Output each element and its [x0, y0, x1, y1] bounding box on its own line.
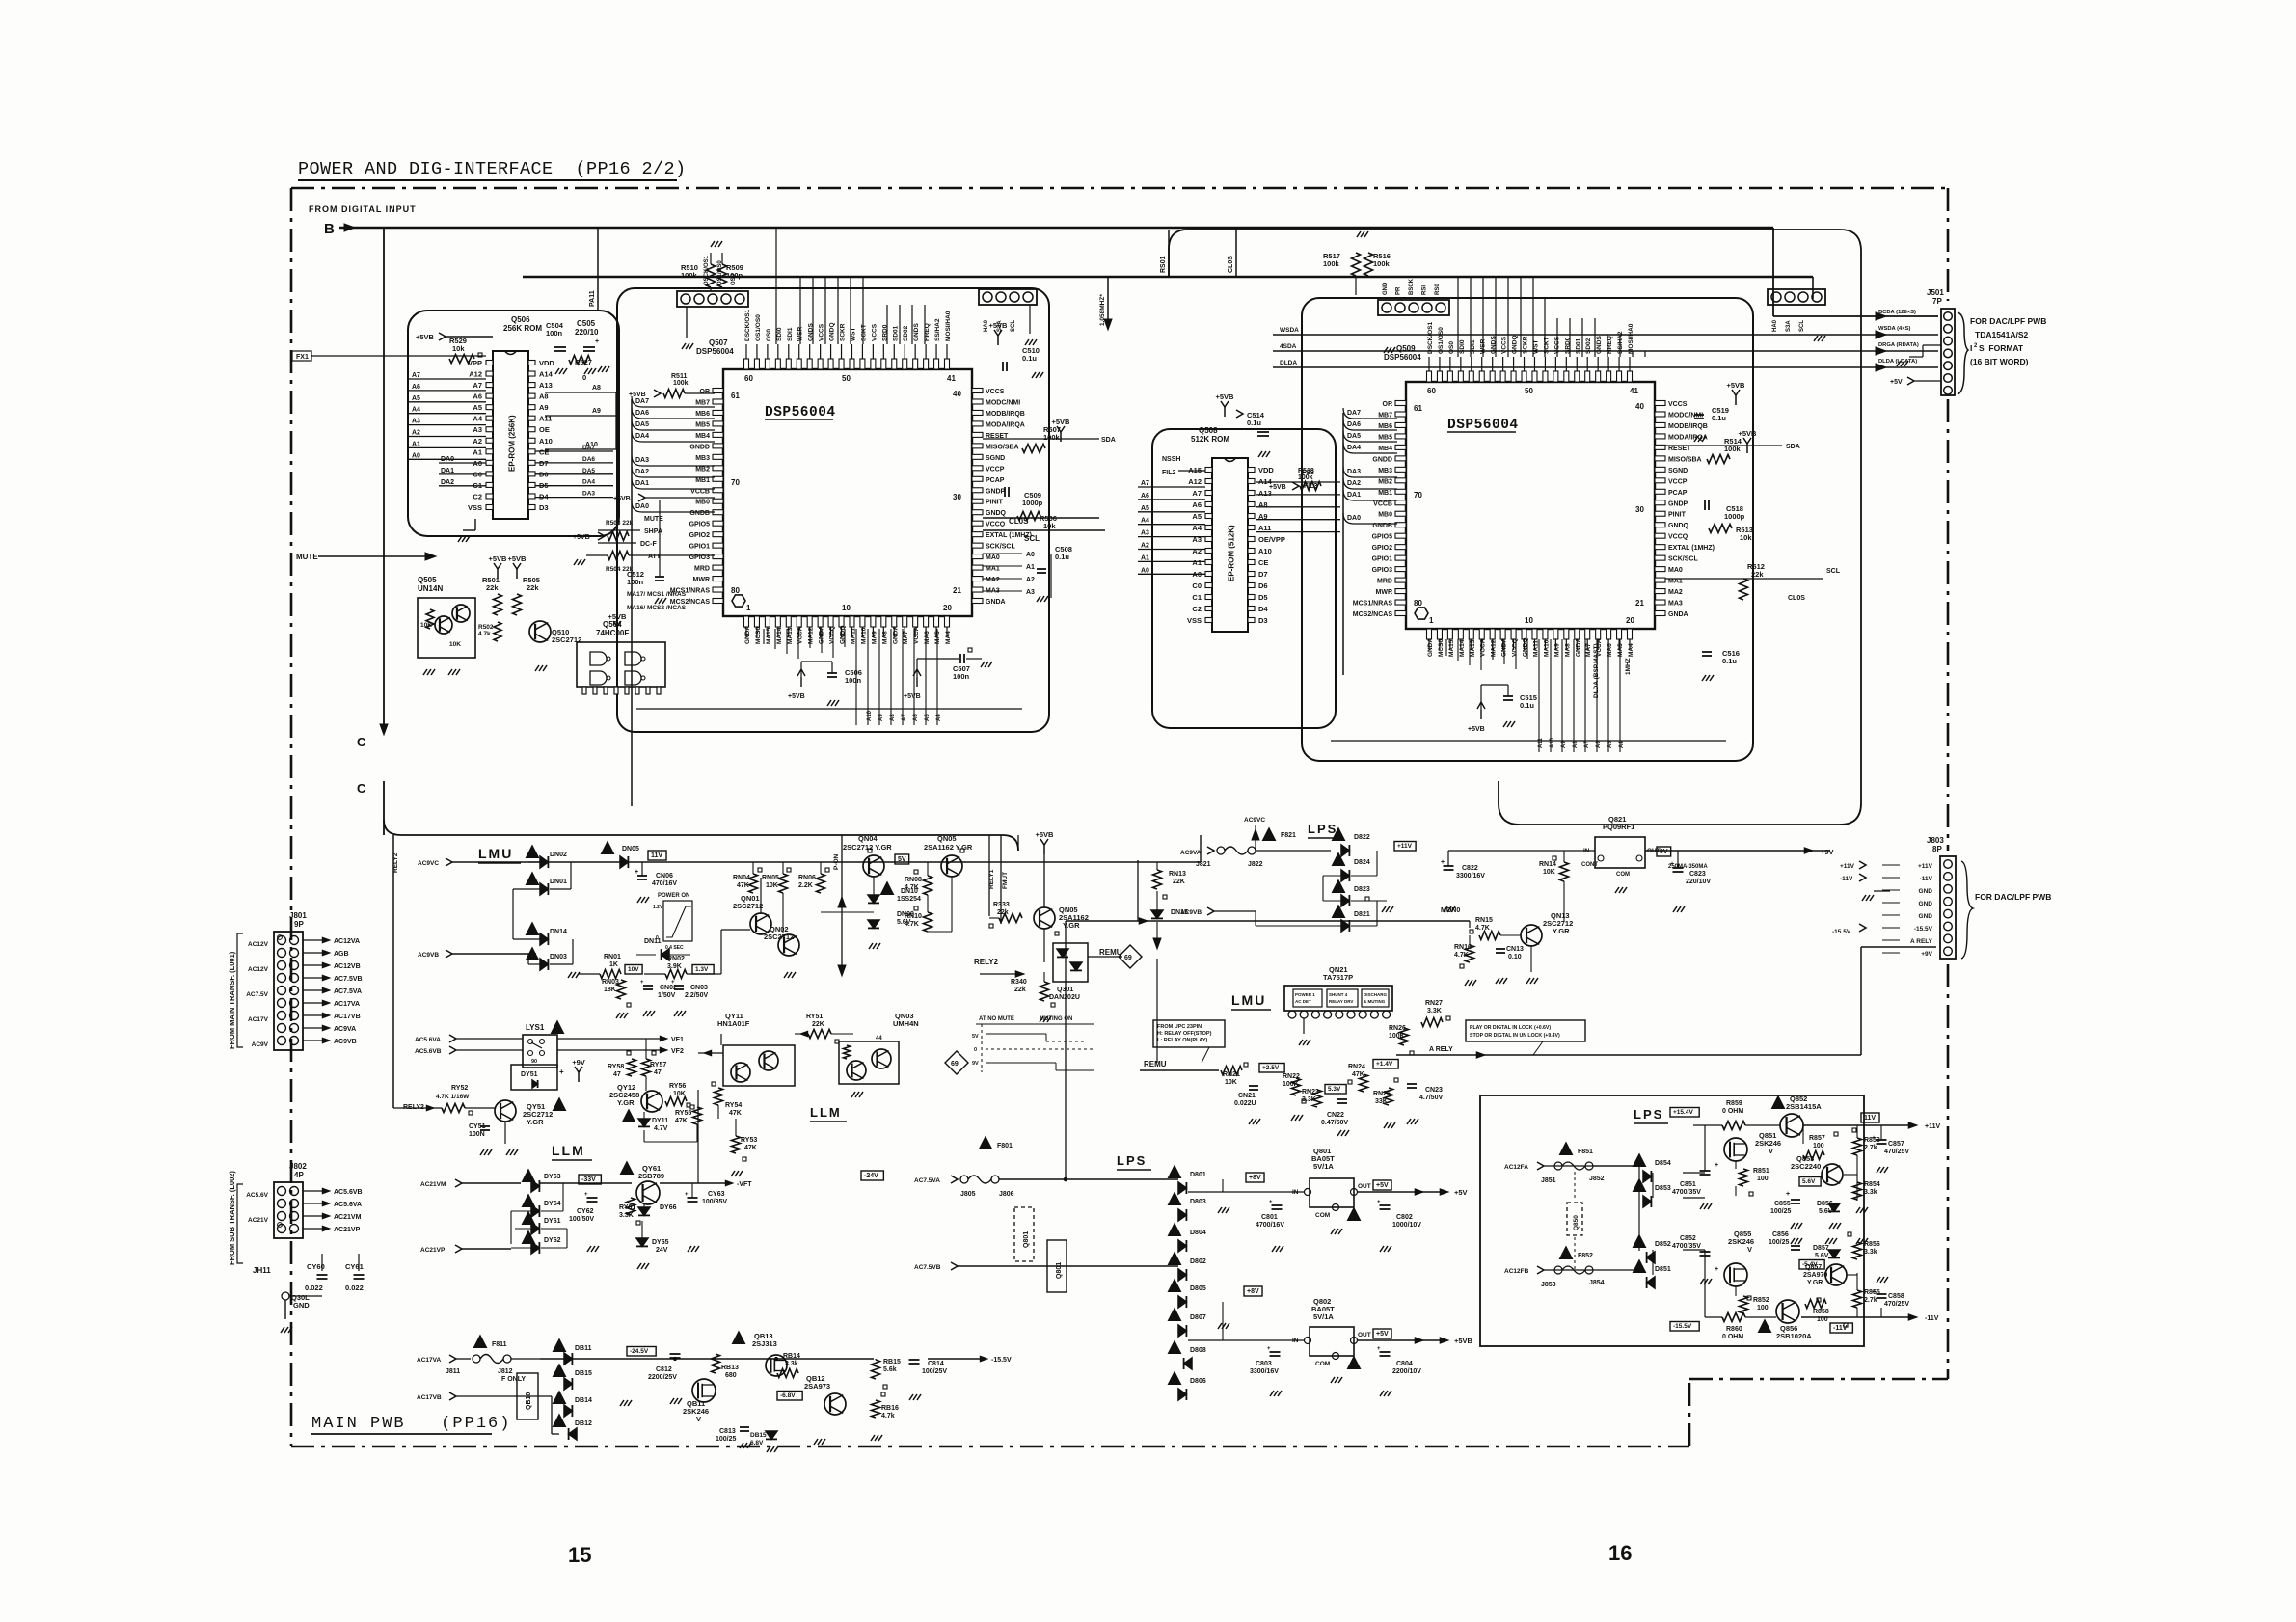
svg-text:CN21: CN21 — [1238, 1093, 1256, 1099]
svg-text:PCAP: PCAP — [1668, 490, 1688, 497]
svg-text:R502: R502 — [478, 624, 494, 631]
svg-text:RB16: RB16 — [881, 1405, 899, 1412]
svg-text:CN23: CN23 — [1425, 1087, 1443, 1094]
svg-text:DA3: DA3 — [635, 457, 649, 464]
svg-text:TDA1541A/S2: TDA1541A/S2 — [1975, 330, 2029, 339]
svg-text:4700/35V: 4700/35V — [1672, 1243, 1701, 1250]
svg-text:5V/1A: 5V/1A — [1313, 1162, 1334, 1171]
capacitor C519 — [1694, 381, 1745, 442]
capacitor CN06 — [635, 862, 677, 903]
svg-text:A10: A10 — [585, 442, 598, 448]
svg-text:1MHZ: 1MHZ — [1625, 658, 1632, 675]
svg-text:SCL: SCL — [1011, 320, 1016, 332]
regulator Q802 — [1292, 1297, 1371, 1383]
svg-text:DA6: DA6 — [582, 456, 595, 463]
diode DN11 — [636, 938, 690, 960]
svg-text:MODA/IRQA: MODA/IRQA — [986, 421, 1025, 428]
svg-text:EXTAL (1MHZ): EXTAL (1MHZ) — [1668, 545, 1715, 552]
svg-text:BCDA (128×S): BCDA (128×S) — [1878, 310, 1916, 315]
svg-text:-15.5V: -15.5V — [1914, 926, 1933, 933]
connector header 4p D — [1768, 289, 1825, 341]
svg-text:100k: 100k — [1373, 259, 1391, 268]
label FOR DAC/LPF right — [1970, 316, 2046, 366]
svg-text:TA7517P: TA7517P — [1323, 973, 1353, 982]
svg-text:V: V — [1747, 1245, 1752, 1254]
svg-text:61: 61 — [1414, 404, 1422, 413]
svg-text:-15.5V: -15.5V — [1673, 1323, 1692, 1330]
svg-text:C: C — [357, 735, 366, 749]
svg-text:MA10: MA10 — [1543, 639, 1550, 657]
svg-text:V: V — [1769, 1147, 1773, 1155]
resistor RY51 — [795, 1014, 853, 1043]
page number 16 — [1608, 1541, 1632, 1565]
resistor RY54 — [712, 1082, 742, 1119]
group box ROM left — [408, 311, 619, 536]
svg-text:A2: A2 — [473, 437, 482, 446]
svg-text:A13: A13 — [539, 381, 553, 390]
capacitor C506 — [788, 662, 862, 706]
svg-text:4P: 4P — [294, 1171, 304, 1179]
svg-text:10K: 10K — [1225, 1079, 1237, 1086]
capacitor CY60 — [305, 1262, 328, 1292]
svg-text:DSP56004: DSP56004 — [1384, 353, 1421, 362]
svg-text:-24V: -24V — [864, 1173, 878, 1179]
svg-text:100/25: 100/25 — [1769, 1239, 1790, 1246]
resistor R859 — [1722, 1100, 1745, 1130]
resistor RN08 — [905, 862, 932, 895]
svg-text:8P: 8P — [1932, 845, 1942, 853]
svg-text:A3: A3 — [473, 425, 482, 434]
svg-text:+5VB: +5VB — [573, 534, 590, 541]
svg-text:QN05: QN05 — [937, 834, 957, 843]
svg-text:GNDQ: GNDQ — [1668, 523, 1689, 529]
svg-text:5.6V: 5.6V — [1815, 1253, 1829, 1259]
svg-text:256K ROM: 256K ROM — [503, 324, 542, 333]
power on graph — [653, 893, 692, 951]
label J803 pins — [1882, 863, 1933, 958]
wire AC12FA — [1504, 1162, 1635, 1171]
svg-text:GPIO1: GPIO1 — [1372, 556, 1393, 563]
wire address bus A7-A0 — [409, 372, 486, 459]
svg-text:A2: A2 — [1141, 543, 1149, 550]
capacitor CY62 — [569, 1192, 599, 1252]
transistor Q856 — [1759, 1300, 1813, 1340]
svg-text:50: 50 — [1525, 387, 1533, 395]
svg-text:AC12V: AC12V — [248, 941, 269, 948]
svg-text:A8: A8 — [890, 714, 896, 721]
wire J801 outputs — [303, 937, 363, 1045]
svg-text:47K: 47K — [729, 1110, 742, 1117]
svg-text:+5VB: +5VB — [1727, 381, 1746, 390]
svg-text:VCCQ: VCCQ — [1512, 638, 1519, 657]
svg-text:A1: A1 — [1026, 564, 1035, 571]
svg-text:RY57: RY57 — [650, 1062, 666, 1068]
svg-text:COM: COM — [1315, 1361, 1330, 1367]
svg-text:PINIT: PINIT — [986, 500, 1004, 506]
capacitor C823 — [1670, 851, 1711, 912]
svg-text:AC9V: AC9V — [252, 1041, 269, 1048]
svg-text:1: 1 — [746, 604, 751, 612]
svg-text:F801: F801 — [997, 1143, 1013, 1149]
svg-text:D821: D821 — [1354, 911, 1370, 918]
transistor QN13 — [1521, 911, 1573, 946]
svg-text:HA0: HA0 — [1772, 319, 1778, 332]
svg-text:2SB1020A: 2SB1020A — [1776, 1332, 1812, 1340]
capacitor C814 — [909, 1359, 948, 1400]
resistor R509 — [718, 253, 743, 287]
svg-text:DSP56004: DSP56004 — [696, 347, 734, 356]
wire -11v — [1801, 1314, 1939, 1333]
svg-text:DA0: DA0 — [441, 456, 454, 463]
svg-text:DA5: DA5 — [1347, 433, 1361, 440]
resistor RN23 — [1302, 1085, 1346, 1108]
svg-text:A6: A6 — [1596, 741, 1602, 748]
svg-text:DA0: DA0 — [1347, 515, 1361, 522]
label CL0S SCL — [1009, 437, 1116, 543]
svg-text:D852: D852 — [1655, 1241, 1671, 1248]
svg-text:GND: GND — [1919, 901, 1933, 907]
svg-text:OS1/OS0: OS1/OS0 — [1438, 327, 1445, 354]
svg-text:1.2V: 1.2V — [653, 905, 663, 910]
label A RELY — [1429, 1046, 1453, 1053]
svg-text:70: 70 — [1414, 491, 1422, 500]
IC U509 DSP56004 — [1353, 321, 1715, 657]
svg-text:AC DET: AC DET — [1295, 999, 1311, 1004]
svg-text:RN15: RN15 — [1475, 917, 1493, 924]
capacitor C858 — [1872, 1277, 1909, 1317]
wire relay bus — [392, 835, 394, 1108]
svg-text:MA9: MA9 — [1553, 643, 1560, 657]
svg-text:VDD: VDD — [1258, 466, 1274, 474]
fuse F801 — [914, 1137, 1178, 1198]
svg-text:MB0: MB0 — [695, 500, 710, 506]
diode D822 — [1333, 828, 1416, 856]
svg-text:MA4: MA4 — [1628, 643, 1634, 657]
svg-text:C505: C505 — [577, 319, 596, 328]
tag 2.5v — [1259, 1064, 1284, 1073]
svg-text:10K: 10K — [673, 1091, 686, 1097]
svg-text:MA6: MA6 — [1607, 643, 1613, 657]
svg-text:A7: A7 — [1584, 741, 1590, 748]
resistor RB16 — [814, 1392, 899, 1445]
tag +5v 2 — [1373, 1329, 1391, 1338]
svg-text:220/10: 220/10 — [575, 328, 599, 337]
svg-text:LPS: LPS — [1308, 822, 1337, 836]
svg-text:4.7/50V: 4.7/50V — [1419, 1095, 1443, 1101]
wire AC9VC — [418, 858, 1201, 867]
svg-text:0.1u: 0.1u — [1055, 553, 1069, 561]
svg-text:RN10: RN10 — [905, 913, 922, 920]
svg-text:COM: COM — [1616, 872, 1630, 878]
wire AC17VB — [417, 1392, 559, 1434]
svg-text:DN03: DN03 — [550, 954, 567, 960]
resistor RN01 — [579, 954, 642, 979]
svg-text:A9: A9 — [592, 408, 601, 415]
transistor Q852 — [1772, 1095, 1823, 1137]
svg-text:+5VB: +5VB — [608, 612, 628, 621]
svg-text:DB12: DB12 — [575, 1420, 592, 1427]
svg-text:30: 30 — [1635, 505, 1644, 514]
svg-text:-6.8V: -6.8V — [780, 1392, 796, 1399]
label REMU3 — [1140, 1060, 1219, 1070]
svg-text:OUT: OUT — [1358, 1183, 1371, 1190]
svg-text:DA1: DA1 — [635, 480, 649, 487]
resistor R860 — [1722, 1313, 1745, 1341]
svg-text:SCL: SCL — [1024, 534, 1040, 543]
svg-text:GNDP: GNDP — [1668, 500, 1688, 507]
svg-text:D857: D857 — [1813, 1245, 1829, 1252]
svg-text:24V: 24V — [656, 1247, 668, 1254]
svg-text:C801: C801 — [1261, 1214, 1278, 1221]
svg-text:2200/25V: 2200/25V — [648, 1374, 677, 1381]
svg-text:0.1u: 0.1u — [1247, 419, 1261, 427]
svg-text:OR: OR — [700, 389, 711, 395]
svg-text:S FORMAT: S FORMAT — [1979, 343, 2024, 353]
svg-text:MB5: MB5 — [695, 421, 710, 428]
diode DN02 — [527, 846, 567, 868]
svg-text:D801: D801 — [1190, 1172, 1206, 1178]
label MA17 MA16 — [627, 591, 687, 611]
node C upper — [357, 724, 388, 749]
wire DA0-DA2 — [439, 456, 486, 486]
svg-text:S3A: S3A — [1786, 320, 1792, 332]
svg-text:AC9VA: AC9VA — [1180, 850, 1202, 856]
svg-text:EP-ROM (512K): EP-ROM (512K) — [1228, 525, 1236, 581]
label FROM DIGITAL INPUT — [309, 204, 417, 214]
svg-text:SCK/SCL: SCK/SCL — [1668, 556, 1698, 563]
svg-text:AC12VB: AC12VB — [334, 963, 361, 970]
resistor R853 — [1852, 1125, 1880, 1201]
svg-text:AC17VA: AC17VA — [417, 1357, 441, 1364]
svg-text:A2: A2 — [1026, 577, 1035, 583]
svg-text:+5VB: +5VB — [508, 554, 527, 563]
svg-text:+5VB: +5VB — [1739, 429, 1758, 438]
IC Q505 UN14N — [418, 576, 475, 675]
svg-text:A7: A7 — [473, 381, 482, 390]
svg-text:VDD: VDD — [539, 359, 554, 367]
svg-text:J822: J822 — [1248, 861, 1263, 868]
wire VF1 VF2 — [660, 1036, 684, 1055]
svg-text:80: 80 — [731, 586, 740, 595]
svg-text:CE: CE — [1258, 558, 1268, 567]
svg-text:470/25V: 470/25V — [1884, 1301, 1909, 1308]
resistor RN04 — [733, 862, 762, 893]
diode DB12 — [554, 1415, 592, 1440]
svg-text:AC9VC: AC9VC — [1244, 817, 1265, 824]
label MA right — [983, 552, 1051, 598]
svg-text:1000p: 1000p — [1724, 512, 1745, 521]
svg-text:DC-F: DC-F — [640, 541, 657, 548]
svg-text:0.022: 0.022 — [345, 1284, 364, 1292]
resistor RY58 — [608, 1051, 636, 1078]
svg-text:A5: A5 — [473, 403, 482, 412]
svg-text:D5: D5 — [1258, 593, 1268, 602]
svg-text:2SB1415A: 2SB1415A — [1786, 1102, 1822, 1111]
capacitor C504 — [546, 321, 567, 374]
svg-text:MODC/NMI: MODC/NMI — [986, 399, 1020, 406]
svg-text:+: + — [1377, 1200, 1381, 1205]
svg-text:100/25: 100/25 — [716, 1436, 737, 1443]
svg-text:A8: A8 — [539, 392, 549, 401]
wire vert 1 — [589, 228, 598, 311]
svg-text:R854: R854 — [1864, 1181, 1880, 1188]
svg-text:J801: J801 — [289, 911, 307, 920]
svg-text:R857: R857 — [1809, 1135, 1825, 1142]
svg-text:AC5.6VA: AC5.6VA — [334, 1202, 362, 1208]
transistor Q857 — [1803, 1264, 1847, 1302]
svg-text:MB6: MB6 — [695, 411, 710, 418]
svg-text:18K: 18K — [604, 987, 616, 993]
svg-text:4.7k: 4.7k — [881, 1413, 895, 1419]
transistor QN04 — [843, 834, 909, 877]
svg-text:A4: A4 — [473, 415, 482, 423]
svg-text:+: + — [640, 980, 644, 986]
resistor R511 — [629, 373, 715, 398]
svg-text:60: 60 — [744, 374, 753, 383]
wire AC9VB lmu — [418, 950, 536, 959]
brace J501 — [1958, 312, 1968, 394]
group box LPS right — [1480, 1095, 1864, 1346]
svg-text:JH11: JH11 — [253, 1266, 271, 1275]
svg-text:3.3k: 3.3k — [1864, 1189, 1877, 1196]
svg-text:DA1: DA1 — [441, 468, 454, 474]
svg-text:FROM DIGITAL INPUT: FROM DIGITAL INPUT — [309, 204, 417, 214]
svg-text:SDI1: SDI1 — [787, 327, 794, 341]
svg-text:A2: A2 — [412, 430, 420, 437]
svg-text:PA11: PA11 — [589, 290, 596, 307]
resistor RB14 — [777, 1353, 800, 1378]
svg-text:0.022U: 0.022U — [1234, 1100, 1256, 1107]
svg-text:30: 30 — [953, 493, 961, 501]
svg-text:OS0: OS0 — [1448, 341, 1455, 354]
svg-text:C0: C0 — [1192, 581, 1202, 590]
label LPS1 — [1308, 822, 1342, 838]
svg-text:MRD: MRD — [694, 566, 710, 573]
wire a-bus drop right — [1538, 737, 1625, 748]
svg-text:AC5.6V: AC5.6V — [246, 1192, 268, 1199]
resistor R514 — [1707, 429, 1757, 464]
svg-text:J821: J821 — [1196, 861, 1211, 868]
svg-text:+5V: +5V — [1376, 1331, 1389, 1338]
svg-text:+5VB: +5VB — [788, 693, 805, 700]
resistor RN21 — [1221, 1063, 1248, 1086]
label FOR DAC/LPF 2 — [1975, 892, 2051, 902]
svg-text:SCK/SCL: SCK/SCL — [986, 544, 1015, 551]
wire -15.5V out — [928, 1356, 1012, 1364]
svg-text:11V: 11V — [651, 852, 662, 859]
label JH11 — [253, 1266, 271, 1275]
svg-text:C858: C858 — [1888, 1293, 1904, 1300]
diode D805 — [1169, 1280, 1206, 1308]
resistor R504 — [574, 552, 670, 574]
IC U509 refdes — [1384, 344, 1421, 362]
svg-text:MCS2/NCAS: MCS2/NCAS — [1353, 611, 1393, 618]
svg-text:+: + — [685, 1192, 689, 1198]
diode DB15x — [554, 1365, 592, 1390]
wire AC21VM — [420, 1179, 632, 1188]
svg-text:FX1: FX1 — [296, 354, 309, 361]
label FS3 FIL3 — [1302, 470, 1317, 490]
svg-text:+5V: +5V — [1890, 379, 1903, 386]
svg-text:GPIO5: GPIO5 — [689, 522, 711, 528]
border frame dash-dot — [291, 188, 1948, 1446]
svg-text:D807: D807 — [1190, 1314, 1206, 1321]
label RELY2 mid — [974, 958, 1024, 977]
label LPS2 — [1117, 1153, 1151, 1170]
svg-text:AC5.6VA: AC5.6VA — [415, 1037, 441, 1043]
capacitor C855 — [1770, 1191, 1802, 1229]
svg-text:C855: C855 — [1774, 1201, 1791, 1207]
svg-text:SCL: SCL — [1826, 568, 1841, 575]
svg-text:47K: 47K — [737, 882, 749, 889]
svg-text:4.7k: 4.7k — [478, 631, 491, 637]
svg-text:(16 BIT WORD): (16 BIT WORD) — [1970, 357, 2029, 366]
svg-text:D853: D853 — [1655, 1185, 1671, 1192]
resistor RN26 — [1389, 1025, 1414, 1055]
svg-text:POWER 1: POWER 1 — [1295, 992, 1315, 997]
svg-text:41: 41 — [1630, 387, 1638, 395]
svg-text:RN27: RN27 — [1425, 1000, 1443, 1007]
svg-text:A RELY: A RELY — [1910, 938, 1933, 945]
svg-text:MA11: MA11 — [1532, 640, 1539, 657]
wire DLDA out — [1273, 360, 1938, 371]
wire 74hc00 pins — [582, 687, 661, 694]
svg-text:D823: D823 — [1354, 886, 1370, 893]
svg-text:VCCP: VCCP — [1668, 478, 1688, 485]
capacitor C813 — [716, 1427, 778, 1452]
wire AC7.5VB — [914, 1262, 1178, 1271]
svg-text:MON0: MON0 — [1441, 907, 1460, 914]
svg-text:J852: J852 — [1589, 1176, 1605, 1182]
capacitor C510 — [989, 321, 1043, 378]
resistor R516 — [1364, 252, 1391, 276]
svg-text:C: C — [357, 781, 366, 796]
svg-text:DY66: DY66 — [660, 1204, 677, 1211]
svg-text:100p: 100p — [726, 271, 743, 280]
svg-text:RN04: RN04 — [733, 875, 750, 881]
svg-text:CY63: CY63 — [708, 1191, 725, 1198]
svg-text:RS0: RS0 — [1435, 284, 1441, 295]
IC Q508 label — [1191, 426, 1229, 444]
wire gpio nets — [598, 516, 715, 560]
capacitor CN02 — [640, 980, 677, 1016]
svg-text:V: V — [696, 1415, 701, 1423]
svg-text:A10: A10 — [1550, 737, 1555, 748]
wire llm vbus — [698, 1034, 721, 1183]
svg-text:-11V: -11V — [1920, 876, 1933, 882]
svg-text:1.3V: 1.3V — [695, 966, 709, 973]
svg-text:FOR DAC/LPF PWB: FOR DAC/LPF PWB — [1975, 892, 2051, 902]
diode DN01 — [513, 862, 571, 895]
svg-text:Y.GR: Y.GR — [1807, 1280, 1823, 1286]
fuse F851 — [1541, 1143, 1605, 1184]
svg-text:DISCHARG: DISCHARG — [1364, 992, 1388, 997]
svg-text:5V: 5V — [972, 1034, 979, 1040]
info box FROM UPC — [1153, 1020, 1225, 1063]
svg-text:2SA1162 Y.GR: 2SA1162 Y.GR — [924, 843, 973, 852]
svg-text:0.10: 0.10 — [1508, 954, 1522, 960]
resistor R857 — [1803, 1132, 1838, 1160]
svg-text:VCCS: VCCS — [819, 323, 825, 341]
svg-text:OR: OR — [1383, 401, 1393, 408]
svg-text:GND: GND — [1383, 282, 1389, 295]
fet QB11 — [683, 1379, 716, 1423]
svg-text:60: 60 — [1427, 387, 1436, 395]
power +5VB rom — [416, 333, 493, 341]
svg-text:5.3V: 5.3V — [1328, 1086, 1341, 1093]
svg-text:FROM SUB TRANSF. (L002): FROM SUB TRANSF. (L002) — [228, 1171, 236, 1265]
wire p-on — [833, 835, 846, 976]
